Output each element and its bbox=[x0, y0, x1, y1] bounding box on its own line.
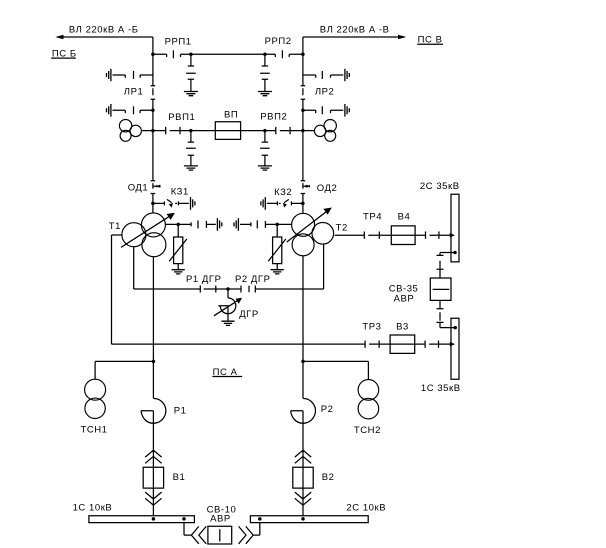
svg-text:ТР4: ТР4 bbox=[363, 211, 382, 222]
svg-text:В3: В3 bbox=[396, 322, 409, 333]
svg-text:Р1 ДГР: Р1 ДГР bbox=[186, 274, 221, 285]
svg-text:Т2: Т2 bbox=[336, 223, 348, 234]
svg-text:ТР3: ТР3 bbox=[362, 322, 381, 333]
svg-text:Р2: Р2 bbox=[321, 404, 334, 415]
svg-text:РРП2: РРП2 bbox=[265, 36, 292, 47]
svg-text:Т1: Т1 bbox=[109, 221, 121, 232]
svg-text:КЗ1: КЗ1 bbox=[171, 187, 189, 198]
svg-text:В4: В4 bbox=[398, 211, 411, 222]
svg-text:Р1: Р1 bbox=[174, 406, 187, 417]
svg-text:РРП1: РРП1 bbox=[165, 36, 192, 47]
svg-text:ЛР2: ЛР2 bbox=[315, 87, 335, 98]
svg-text:ЛР1: ЛР1 bbox=[124, 87, 144, 98]
svg-text:ВЛ 220кВ А -Б: ВЛ 220кВ А -Б bbox=[69, 25, 139, 36]
svg-text:КЗ2: КЗ2 bbox=[274, 187, 292, 198]
svg-text:2С 35кВ: 2С 35кВ bbox=[420, 181, 460, 192]
svg-text:В2: В2 bbox=[322, 472, 335, 483]
svg-text:ПС А: ПС А bbox=[213, 367, 238, 378]
svg-text:1С 10кВ: 1С 10кВ bbox=[73, 503, 113, 514]
svg-text:РВП1: РВП1 bbox=[168, 112, 195, 123]
svg-text:ДГР: ДГР bbox=[239, 309, 259, 320]
svg-text:2С 10кВ: 2С 10кВ bbox=[346, 503, 386, 514]
svg-text:ТСН2: ТСН2 bbox=[354, 425, 381, 436]
svg-text:ОД2: ОД2 bbox=[317, 183, 338, 194]
svg-text:1С 35кВ: 1С 35кВ bbox=[421, 383, 461, 394]
svg-text:ВЛ 220кВ А -В: ВЛ 220кВ А -В bbox=[320, 25, 390, 36]
svg-text:РВП2: РВП2 bbox=[260, 111, 287, 122]
svg-text:В1: В1 bbox=[173, 472, 186, 483]
svg-text:ТСН1: ТСН1 bbox=[81, 425, 108, 436]
svg-text:АВР: АВР bbox=[210, 513, 231, 524]
svg-text:ВП: ВП bbox=[224, 110, 238, 121]
svg-text:ОД1: ОД1 bbox=[128, 182, 149, 193]
svg-text:Р2 ДГР: Р2 ДГР bbox=[235, 274, 270, 285]
svg-text:ПС В: ПС В bbox=[418, 34, 443, 45]
svg-text:АВР: АВР bbox=[394, 293, 415, 304]
svg-text:ПС Б: ПС Б bbox=[52, 48, 77, 59]
